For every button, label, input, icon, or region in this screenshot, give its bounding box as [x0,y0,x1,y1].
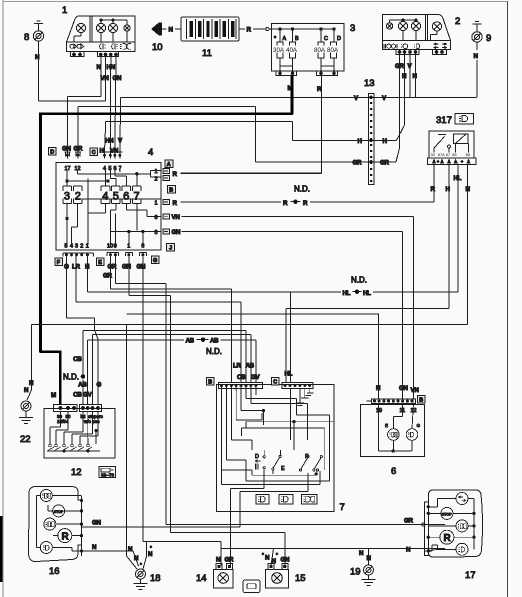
box4 internal wiring [66,170,161,245]
svg-text:3: 3 [155,230,158,236]
connector B pin + R ND [155,186,178,207]
svg-text:R: R [62,532,70,543]
svg-text:H: H [446,186,451,193]
fuse box 3 connector pins [276,66,338,76]
wire HL F-to-relay with ND [87,165,458,297]
svg-text:GV: GV [83,392,93,399]
svg-text:3: 3 [64,191,70,203]
box4 item 2 [74,186,83,204]
svg-text:A: A [283,36,287,42]
wire GN unit7 drop [239,511,241,527]
svg-text:10: 10 [107,244,113,250]
svg-text:2: 2 [155,177,158,183]
svg-text:GN: GN [122,264,132,271]
svg-text:5: 5 [113,191,119,203]
svg-text:15: 15 [295,573,306,584]
headlight 2 connector pins [396,49,447,54]
svg-text:H: H [100,148,105,155]
ignition internals [47,412,100,453]
svg-text:1: 1 [62,5,67,16]
connector A pins + R [155,160,178,183]
wire GV ignition to 7 [93,335,251,405]
headlight 2 bulb a [386,20,403,29]
horn arrow 10 [152,23,181,53]
svg-text:N.D.: N.D. [206,347,222,356]
svg-text:VN: VN [101,75,110,82]
headlight 1 bulb b [96,19,105,42]
box4 bottom pin numbers [65,244,145,250]
unit 6 connector strip [367,399,416,403]
svg-text:B: B [208,380,212,386]
svg-text:GN: GN [281,557,291,564]
wire GR main run [78,54,400,166]
svg-text:GN: GN [113,75,123,82]
svg-text:30A: 30A [273,47,285,54]
svg-text:HL: HL [363,290,371,297]
svg-text:R: R [283,200,288,207]
svg-text:*: * [262,552,264,557]
svg-text:2: 2 [80,244,83,250]
svg-text:6: 6 [391,466,396,477]
wire N drop to ground 18 [127,325,138,570]
wire AB ignition to 7 with ND [88,338,256,405]
svg-text:4: 4 [70,244,73,250]
svg-text:V: V [354,95,359,102]
svg-text:V: V [118,138,123,145]
svg-text:CB: CB [73,356,82,363]
connector D pins [62,146,83,173]
svg-text:12: 12 [71,467,82,478]
svg-text:N.D.: N.D. [63,373,79,382]
svg-text:14: 14 [196,573,207,584]
svg-text:8: 8 [24,32,29,43]
light switch unit 4 [56,147,161,250]
license lamp 15 [262,552,306,588]
svg-text:N: N [367,555,372,562]
svg-text:N: N [24,387,29,394]
connector C pins [100,138,124,173]
wire R B to relay with ND [181,165,435,207]
svg-text:GV: GV [251,374,261,381]
svg-text:H: H [358,138,363,145]
svg-text:GN: GN [62,146,72,153]
svg-text:E: E [281,466,285,472]
wire E10 GR to lamp 14 [111,259,232,384]
svg-text:G: G [153,258,157,264]
svg-text:D: D [50,150,54,156]
unit 7 bottom internal wires [222,415,330,511]
svg-text:GN: GN [137,264,147,271]
svg-text:G: G [417,423,421,428]
svg-text:E: E [385,423,388,428]
svg-text:2: 2 [455,16,460,27]
svg-text:GR: GR [395,63,405,70]
headlight 2 bulb c [403,19,421,41]
svg-text:1: 1 [155,201,158,207]
svg-text:N: N [134,555,139,562]
svg-text:317: 317 [436,115,452,126]
svg-text:GR: GR [225,557,235,564]
svg-text:85: 85 [452,152,456,157]
wire HN headlight1 [107,56,116,152]
svg-text:N: N [265,555,270,562]
svg-text:V: V [382,95,387,102]
wire N unit16 to ground 18 [82,544,139,566]
svg-text:N: N [29,380,34,387]
wire CB ignition to 7 [63,330,246,404]
svg-text:GN: GN [92,520,102,527]
svg-text:GR: GR [353,160,363,167]
unit 7 switch F [299,454,322,475]
svg-text:11: 11 [202,48,212,59]
svg-text:AB: AB [78,382,87,389]
icon box near 12 [99,467,116,478]
unit 7 telltale icon 3 [302,495,318,505]
svg-text:M: M [51,392,56,399]
unit 7 internal wiring [222,389,334,470]
svg-text:13: 13 [364,78,375,89]
wire VN headlight1 to ground8 line [39,56,110,101]
unit 7 connector B [219,382,263,390]
headlight 1 bulb d [101,20,130,42]
unit 7 switch E [272,450,285,474]
ground 8 [24,21,44,43]
svg-text:GR: GR [380,160,390,167]
box4 item 3 [63,186,72,204]
boxed letter C (unit 7) [272,378,280,386]
svg-text:1: 1 [86,244,89,250]
wire E1 GN to lamp 15 [129,259,285,566]
svg-text:HN: HN [107,64,116,71]
wire N lamp row [221,542,445,566]
svg-text:N: N [413,73,418,80]
boxed letter D [49,148,57,156]
svg-text:4: 4 [148,147,153,158]
relay 317 connector strip [428,158,477,165]
boxed letter J [167,244,175,252]
unit 16 bulbs [40,490,72,554]
unit 7 telltale icon 1 [256,495,269,505]
headlight unit 2 [383,15,461,50]
ground 19 [350,550,376,586]
svg-text:*: * [150,545,152,550]
svg-text:VN: VN [172,214,181,221]
wire N ground 9 [474,42,479,97]
svg-text:E: E [98,260,102,266]
wire N bus relay 86 [31,165,467,391]
svg-text:6: 6 [123,191,129,203]
wire E8 GN to N line [143,259,221,542]
svg-text:C: C [324,36,328,42]
unit 17 bulbs [440,493,468,556]
svg-text:R: R [444,533,452,544]
unit 7 internal ground [296,389,314,406]
svg-text:B: B [169,188,173,194]
svg-text:1: 1 [155,169,158,175]
wire N drop to unit 6 [127,313,379,315]
svg-text:N: N [359,550,364,557]
svg-text:GR: GR [404,518,414,525]
svg-text:R: R [303,200,308,207]
boxed letter B (unit 6) [418,396,426,404]
ground 9 [472,22,491,45]
svg-text:19: 19 [350,567,361,578]
svg-text:18: 18 [150,573,161,584]
svg-text:7: 7 [134,191,140,203]
svg-text:H: H [383,138,388,145]
svg-text:*: * [274,36,277,42]
svg-text:GR: GR [74,146,84,153]
headlight 2 bulb b [398,19,407,41]
svg-text:N.D.: N.D. [351,276,367,285]
tail light unit 17 [425,490,483,581]
wire GN headlight1 [113,56,123,152]
svg-text:80A: 80A [314,47,326,54]
svg-text:87: 87 [446,152,450,157]
svg-text:16: 16 [49,566,60,577]
headlight unit 1 [62,5,135,51]
wire H main run [105,54,405,152]
connector pin 3 GN [155,229,403,399]
svg-text:C: C [92,150,96,156]
svg-text:4: 4 [102,191,108,203]
svg-text:6: 6 [155,215,158,221]
instrument unit 6 [360,404,424,477]
svg-text:R: R [173,171,178,178]
svg-text:2: 2 [75,191,81,203]
svg-text:R: R [173,200,178,207]
wire V main run [120,54,477,152]
column switch unit 7 [217,385,345,514]
svg-text:8: 8 [141,244,144,250]
wire GN unit16 [82,520,240,528]
svg-text:N: N [474,53,479,60]
unit 6 internals [379,403,421,452]
box4 item 7 [132,186,141,204]
ground 18 [128,545,161,590]
svg-text:CB: CB [237,374,246,381]
svg-text:V: V [408,63,413,70]
box4 item 4 [101,186,110,204]
svg-text:80A: 80A [327,47,339,54]
svg-text:D: D [337,36,341,42]
svg-text:9: 9 [486,33,491,44]
svg-text:32--78: 32--78 [101,473,115,478]
license lamp 14 [196,557,234,589]
wire N drop from lamp line to ground 18 [143,542,147,569]
unit 7 switch D [255,450,265,470]
svg-text:17: 17 [465,570,476,581]
svg-text:22: 22 [20,434,31,445]
svg-text:86: 86 [466,152,470,157]
wire N from ground 8 [35,41,40,101]
svg-text:LR: LR [233,363,241,370]
svg-text:H: H [402,73,407,80]
boxed letter G [152,256,160,264]
headlight 1 bulb a [74,23,86,42]
svg-text:10: 10 [152,42,163,53]
svg-text:N.D.: N.D. [294,185,310,194]
box4 item 6 [122,186,131,204]
svg-text:N: N [169,27,174,34]
svg-text:VN: VN [411,387,420,394]
svg-text:R: R [247,27,252,34]
svg-text:HN: HN [105,138,114,145]
battery 11 [181,17,239,59]
wire R fuse to A [181,76,322,174]
fuse box 3 [269,23,355,71]
unit 7 telltale icon 2 [279,495,293,505]
connector 13 [364,78,375,184]
headlight 2 bulb d [431,22,442,41]
svg-text:87A: 87A [438,152,445,157]
unit 16 internal wires [37,496,83,553]
svg-text:N: N [148,551,153,558]
svg-text:AB: AB [246,363,255,370]
svg-text:N: N [406,547,411,554]
svg-text:GN: GN [399,385,409,392]
boxed letter C [90,148,98,156]
svg-text:N: N [128,546,133,553]
unit 7 connector C [282,382,313,388]
wire LR F-to-7 [76,259,241,384]
relay 317 [429,114,474,159]
svg-text:AB: AB [186,338,195,345]
svg-text:A: A [167,162,171,168]
wire H relay to unit 7 [286,165,449,384]
svg-text:GR: GR [103,273,113,280]
box4 item 5 [112,186,121,204]
svg-text:N: N [92,544,97,551]
svg-text:*: * [140,562,142,567]
svg-text:5: 5 [65,244,68,250]
connector F pins [55,253,94,271]
svg-text:40A: 40A [286,47,298,54]
svg-text:HL: HL [343,290,351,297]
headlight 1 strip icons [70,44,131,50]
svg-text:G: G [96,382,101,389]
svg-text:C: C [273,380,277,386]
headlight 1 connector pins [71,51,119,56]
svg-text:N: N [35,54,40,61]
svg-text:15/54: 15/54 [57,419,69,424]
headlight 1 bulb c [108,19,117,42]
wire M battery feed (thick) [39,76,293,405]
connector E pins [97,253,147,271]
svg-text:3: 3 [75,244,78,250]
svg-text:1: 1 [127,244,130,250]
icon box bottom [243,580,260,593]
tail light unit 16 [29,487,82,578]
svg-text:*: * [276,552,278,557]
svg-text:AB: AB [210,338,219,345]
wire G F-to-ignition [66,259,98,405]
wire HL branch to unit 7 [285,292,293,383]
svg-text:N: N [376,385,381,392]
ignition connector blocks [54,405,104,425]
svg-text:GN: GN [172,229,182,236]
wire E9 GR to tail 17 [115,259,445,525]
svg-text:J: J [169,246,172,252]
ignition switch 12 [44,409,115,479]
connector pin 6 VN [155,214,414,399]
wire N headlight1 drop [67,56,101,152]
svg-text:D: D [255,454,259,460]
wire GR unit7 to lamp 14 [229,511,231,565]
headlight 2 strip icons [384,43,447,49]
svg-text:B: B [419,398,423,404]
svg-text:CB: CB [73,392,82,399]
unit 17 internal wires [422,499,476,553]
svg-text:N: N [216,557,221,564]
wire R battery to fuse box [239,27,269,34]
boxed letter B (unit 7) [207,378,215,386]
svg-text:30: 30 [431,152,436,157]
svg-text:STOP: STOP [442,512,452,516]
svg-text:R: R [431,186,436,193]
svg-text:B: B [295,36,299,42]
svg-text:3: 3 [350,23,355,34]
svg-text:STOP: STOP [54,510,64,514]
svg-text:19: 19 [376,408,382,414]
svg-text:7: 7 [340,502,345,513]
ground 22 [19,380,34,445]
svg-text:9: 9 [114,244,117,250]
